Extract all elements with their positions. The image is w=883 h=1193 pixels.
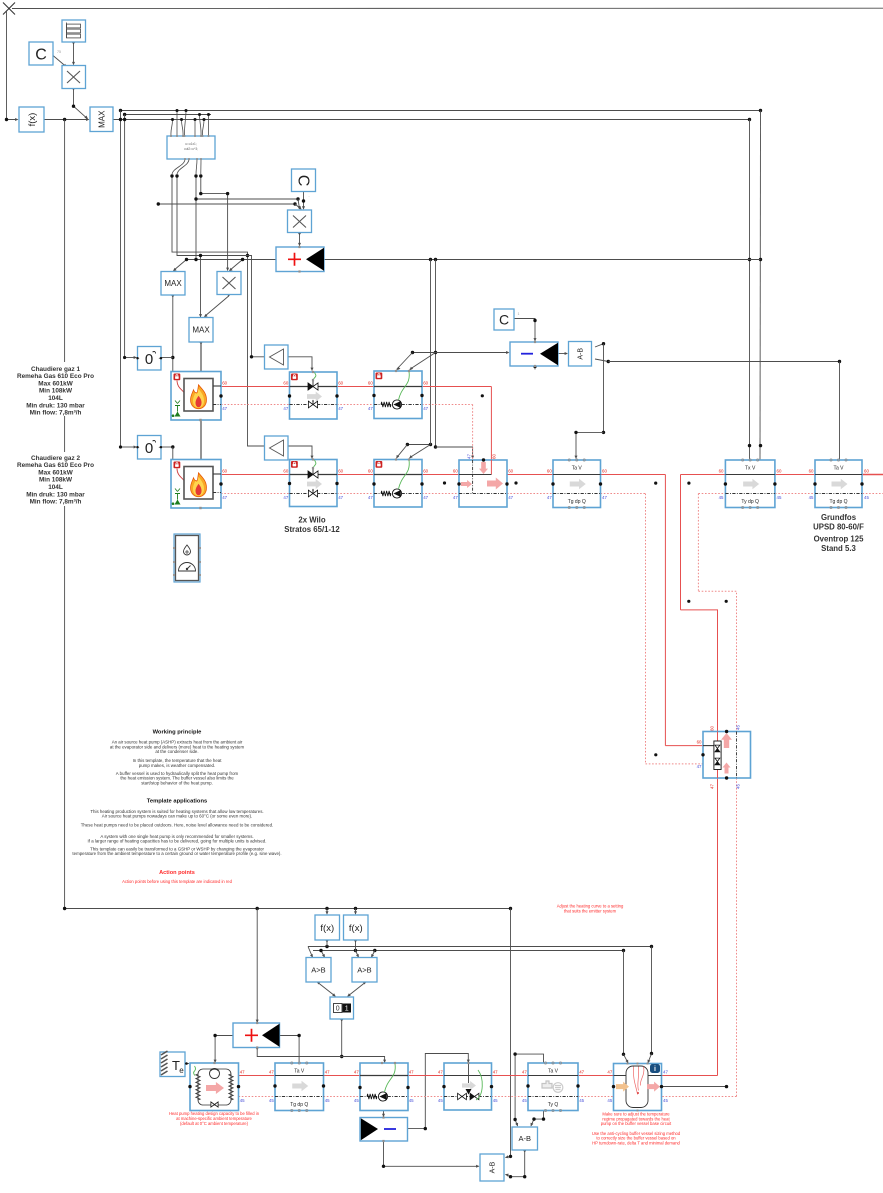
svg-text:Stand 5.3: Stand 5.3	[821, 544, 856, 553]
svg-text:47: 47	[354, 1069, 359, 1074]
svg-text:2x Wilo: 2x Wilo	[298, 516, 325, 525]
svg-text:45: 45	[607, 1098, 612, 1103]
svg-text:60: 60	[222, 380, 227, 385]
svg-text:at the condenser side.: at the condenser side.	[155, 749, 198, 754]
svg-text:Action points before using thi: Action points before using this template…	[122, 879, 233, 884]
svg-text:Oventrop 125: Oventrop 125	[814, 535, 864, 544]
svg-text:A>B: A>B	[311, 965, 325, 974]
svg-text:0: 0	[145, 440, 153, 457]
svg-text:75: 75	[57, 50, 61, 54]
svg-text:(default at 0°C ambient temper: (default at 0°C ambient temperature)	[180, 1121, 249, 1126]
svg-text:60: 60	[508, 468, 513, 473]
svg-text:Min druk: 130 mbar: Min druk: 130 mbar	[26, 402, 85, 409]
svg-text:45: 45	[663, 1098, 668, 1103]
svg-text:A-B: A-B	[518, 1134, 531, 1143]
svg-text:A-B: A-B	[490, 1161, 497, 1173]
svg-text:47: 47	[547, 495, 552, 500]
svg-text:47: 47	[579, 1069, 584, 1074]
svg-text:60: 60	[368, 468, 373, 473]
svg-text:Remeha Gas 610 Eco Pro: Remeha Gas 610 Eco Pro	[17, 373, 94, 380]
svg-text:1: 1	[345, 1006, 349, 1013]
svg-text:MAX: MAX	[97, 110, 106, 128]
svg-text:C: C	[35, 46, 47, 63]
svg-text:Ta V: Ta V	[548, 1069, 559, 1075]
svg-text:Tg dp Q: Tg dp Q	[829, 499, 847, 505]
svg-text:60: 60	[338, 380, 343, 385]
svg-text:f(x): f(x)	[349, 923, 363, 934]
svg-text:Ta V: Ta V	[572, 466, 583, 472]
svg-text:47: 47	[222, 406, 227, 411]
svg-text:Tg dp Q: Tg dp Q	[290, 1102, 308, 1108]
svg-text:60: 60	[283, 468, 288, 473]
svg-text:45: 45	[269, 1098, 274, 1103]
svg-text:Ty dp Q: Ty dp Q	[741, 499, 759, 505]
svg-text:Action points: Action points	[159, 870, 195, 876]
svg-text:45: 45	[777, 495, 782, 500]
svg-text:Chaudiere gaz 1: Chaudiere gaz 1	[31, 366, 80, 373]
svg-text:Grundfos: Grundfos	[821, 513, 857, 522]
svg-text:f(x): f(x)	[320, 923, 334, 934]
svg-text:Ta V: Ta V	[833, 466, 844, 472]
svg-text:Stratos 65/1-12: Stratos 65/1-12	[284, 525, 340, 534]
svg-text:C: C	[499, 312, 509, 328]
svg-text:60: 60	[453, 468, 458, 473]
svg-text:A-B: A-B	[578, 348, 585, 360]
svg-text:47: 47	[325, 1069, 330, 1074]
svg-text:45: 45	[354, 1098, 359, 1103]
svg-text:60: 60	[697, 739, 702, 744]
svg-text:47: 47	[602, 495, 607, 500]
svg-text:47: 47	[283, 495, 288, 500]
svg-text:HP turndown-rate, delta T and: HP turndown-rate, delta T and minimal de…	[592, 1140, 680, 1145]
svg-text:47: 47	[409, 1069, 414, 1074]
svg-text:Chaudiere gaz 2: Chaudiere gaz 2	[31, 455, 80, 462]
svg-text:60: 60	[602, 468, 607, 473]
svg-text:60: 60	[777, 468, 782, 473]
svg-text:47: 47	[663, 1070, 668, 1075]
svg-text:45: 45	[240, 1098, 245, 1103]
svg-text:Min druk: 130 mbar: Min druk: 130 mbar	[26, 491, 85, 498]
svg-text:Max 601kW: Max 601kW	[38, 380, 73, 387]
svg-text:Tg dp Q: Tg dp Q	[568, 499, 586, 505]
svg-text:60: 60	[423, 468, 428, 473]
svg-text:UPSD 80-60/F: UPSD 80-60/F	[813, 523, 864, 532]
svg-text:47: 47	[508, 495, 513, 500]
svg-text:60: 60	[547, 468, 552, 473]
svg-text:0: 0	[145, 351, 153, 368]
svg-text:temperature from the ambient t: temperature from the ambient temperature…	[72, 851, 281, 856]
svg-text:47: 47	[269, 1069, 274, 1074]
svg-text:Min 108kW: Min 108kW	[39, 477, 73, 484]
svg-text:47: 47	[283, 406, 288, 411]
svg-text:Remeha Gas 610 Eco Pro: Remeha Gas 610 Eco Pro	[17, 462, 94, 469]
svg-text:47: 47	[368, 406, 373, 411]
svg-text:A>B: A>B	[357, 965, 371, 974]
svg-text:45: 45	[409, 1098, 414, 1103]
svg-text:Tx V: Tx V	[745, 466, 756, 472]
svg-text:e: e	[179, 1066, 184, 1075]
svg-text:47: 47	[423, 406, 428, 411]
svg-text:u=u1x1;: u=u1x1;	[185, 142, 197, 146]
svg-text:45: 45	[809, 495, 814, 500]
svg-text:104L: 104L	[48, 395, 63, 402]
svg-text:47: 47	[368, 495, 373, 500]
svg-text:that suits the emitter system: that suits the emitter system	[564, 908, 617, 913]
svg-text:60: 60	[709, 726, 714, 731]
svg-text:47: 47	[240, 1069, 245, 1074]
svg-text:47: 47	[709, 784, 714, 789]
svg-text:47: 47	[222, 495, 227, 500]
svg-text:60: 60	[864, 468, 869, 473]
svg-text:MAX: MAX	[164, 279, 182, 288]
svg-text:Min flow: 7,8m³/h: Min flow: 7,8m³/h	[30, 410, 82, 417]
svg-text:45: 45	[735, 725, 740, 730]
svg-text:60: 60	[368, 380, 373, 385]
svg-text:1: 1	[518, 312, 520, 316]
svg-text:47: 47	[493, 1069, 498, 1074]
svg-text:47: 47	[438, 1069, 443, 1074]
svg-text:These heat pumps need to be pl: These heat pumps need to be placed outdo…	[81, 822, 274, 827]
svg-text:Max 601kW: Max 601kW	[38, 469, 73, 476]
svg-text:47: 47	[607, 1069, 612, 1074]
svg-text:Air source heat pumps nowadays: Air source heat pumps nowadays can make …	[102, 814, 252, 819]
svg-text:60: 60	[338, 468, 343, 473]
svg-text:If a larger range of heating c: If a larger range of heating capacities …	[88, 839, 267, 844]
svg-text:45: 45	[719, 495, 724, 500]
svg-text:47: 47	[522, 1069, 527, 1074]
svg-text:47: 47	[466, 454, 471, 459]
svg-text:MAX: MAX	[192, 326, 210, 335]
svg-text:45: 45	[493, 1098, 498, 1103]
svg-text:out2=u^3;: out2=u^3;	[184, 147, 198, 151]
svg-text:-: -	[309, 194, 310, 198]
svg-text:Working principle: Working principle	[153, 730, 203, 736]
svg-text:60: 60	[492, 454, 497, 459]
svg-text:Min flow: 7,8m³/h: Min flow: 7,8m³/h	[30, 499, 82, 506]
svg-text:104L: 104L	[48, 484, 63, 491]
svg-text:C: C	[295, 175, 312, 187]
svg-text:Ty Q: Ty Q	[548, 1102, 559, 1108]
svg-text:60: 60	[283, 380, 288, 385]
svg-text:45: 45	[325, 1098, 330, 1103]
svg-text:pump makes, is weather compens: pump makes, is weather compensated.	[139, 763, 215, 768]
svg-text:47: 47	[697, 764, 702, 769]
svg-text:45: 45	[438, 1098, 443, 1103]
svg-text:45: 45	[735, 784, 740, 789]
svg-text:60: 60	[222, 468, 227, 473]
svg-text:pump on the buffer vessel base: pump on the buffer vessel base circuit	[601, 1121, 672, 1126]
svg-text:45: 45	[579, 1098, 584, 1103]
svg-text:60: 60	[719, 468, 724, 473]
svg-text:Min 108kW: Min 108kW	[39, 388, 73, 395]
svg-text:45: 45	[864, 495, 869, 500]
svg-text:47: 47	[453, 495, 458, 500]
svg-text:f(x): f(x)	[27, 113, 38, 127]
svg-text:60: 60	[809, 468, 814, 473]
svg-text:0: 0	[336, 1006, 340, 1013]
svg-text:i: i	[654, 1066, 656, 1073]
svg-text:47: 47	[423, 495, 428, 500]
svg-text:start/stop behavior of the hea: start/stop behavior of the heat pump.	[141, 780, 213, 785]
svg-text:Ta V: Ta V	[294, 1069, 305, 1075]
svg-text:47: 47	[338, 406, 343, 411]
svg-text:45: 45	[522, 1098, 527, 1103]
svg-text:47: 47	[338, 495, 343, 500]
svg-text:Template applications: Template applications	[147, 799, 207, 805]
svg-text:60: 60	[423, 380, 428, 385]
